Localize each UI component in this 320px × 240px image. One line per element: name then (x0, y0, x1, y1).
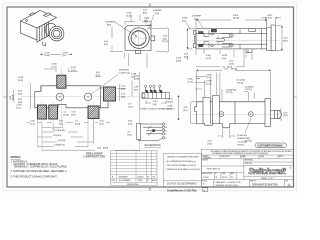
svg-text:[19.05]: [19.05] (231, 68, 237, 70)
svg-text:[2.54]: [2.54] (75, 123, 80, 125)
svg-text:10/26/07: 10/26/07 (203, 177, 209, 179)
svg-text:TB: TB (215, 177, 217, 179)
svg-text:APPD: APPD (152, 179, 157, 182)
front dims left (104, 22, 147, 69)
plug pins dark (145, 90, 148, 93)
svg-text:[3.76]: [3.76] (18, 80, 23, 82)
svg-text:0.126: 0.126 (144, 18, 150, 20)
svg-text:TYP (2): TYP (2) (226, 92, 233, 94)
svg-text:0.185: 0.185 (168, 106, 174, 108)
svg-text:• THREE PLACE DECIMALS ±0.005: • THREE PLACE DECIMALS ±0.005 [0.13] (166, 168, 201, 171)
top view small rect right (249, 29, 256, 32)
plug pin circles (145, 85, 147, 87)
svg-text:[1.25]: [1.25] (207, 83, 212, 85)
svg-text:0.105: 0.105 (207, 74, 213, 76)
svg-text:[8.1]: [8.1] (163, 38, 167, 40)
front view centerlines (128, 27, 151, 50)
svg-text:(0.1): (0.1) (96, 72, 100, 74)
iso terminal slats (37, 22, 49, 42)
svg-text:T: T (165, 124, 166, 126)
svg-text:S: S (165, 134, 166, 136)
svg-text:(2) HOLES: (2) HOLES (237, 135, 247, 137)
footprint left dims (10, 77, 30, 110)
top view nut (271, 25, 275, 51)
footprint right dims (118, 72, 140, 108)
leader line to hex (113, 21, 137, 37)
svg-text:[1.3]: [1.3] (31, 123, 35, 125)
svg-text:[2.67]: [2.67] (176, 60, 181, 62)
svg-text:APPD: APPD (279, 155, 284, 158)
top view flange (267, 27, 271, 50)
svg-text:(0.2): (0.2) (104, 41, 108, 43)
svg-text:[1.3]: [1.3] (59, 123, 63, 125)
footprint body (35, 86, 108, 108)
side view dim right 0.15 (278, 108, 288, 122)
pad right (104, 87, 116, 101)
svg-text:SolidWorks CAD File: SolidWorks CAD File (167, 189, 197, 193)
svg-text:• ALL DIMENSIONS IN INCHES [m: • ALL DIMENSIONS IN INCHES [mm] (166, 160, 197, 163)
front dims above (125, 10, 153, 30)
front view body square (125, 26, 151, 51)
iso top hole (26, 20, 28, 22)
svg-text:0.075: 0.075 (17, 105, 23, 107)
svg-text:[1.8]: [1.8] (208, 143, 212, 145)
svg-text:[12.09]: [12.09] (233, 18, 239, 20)
svg-text:CHECKED: CHECKED (221, 156, 230, 158)
svg-text:0.075: 0.075 (267, 15, 273, 17)
svg-text:[3.8]: [3.8] (284, 115, 288, 117)
top view bottom dims (196, 50, 252, 69)
front view bottom tab (135, 51, 141, 54)
top view inner lines (196, 29, 267, 49)
svg-text:TYP (2): TYP (2) (237, 82, 244, 84)
svg-text:[2.67]: [2.67] (207, 77, 212, 79)
svg-text:[1.14]: [1.14] (188, 81, 193, 83)
svg-text:[1.5]: [1.5] (155, 13, 159, 15)
svg-text:[1.3]: [1.3] (128, 123, 132, 125)
svg-text:[2.54]: [2.54] (64, 114, 69, 116)
iso barrel mid (51, 28, 61, 38)
svg-text:FIRST USED ON: FIRST USED ON (207, 169, 221, 171)
svg-text:0.137: 0.137 (45, 53, 51, 55)
svg-text:0.1R REF: 0.1R REF (192, 16, 202, 18)
side view overall dim (197, 68, 271, 101)
svg-text:0.107: 0.107 (206, 55, 212, 57)
side view centerline (192, 113, 282, 115)
svg-text:[3.5]: [3.5] (131, 76, 135, 78)
top view left height dim (184, 29, 195, 59)
svg-text:[7.6]: [7.6] (129, 106, 133, 108)
top view left terminals (194, 30, 197, 34)
svg-text:0.175: 0.175 (168, 99, 174, 101)
svg-text:NOTES:: NOTES: (11, 155, 21, 159)
svg-text:0.079: 0.079 (63, 53, 69, 55)
svg-text:0.135: 0.135 (127, 13, 133, 15)
top view inner contour (199, 30, 210, 47)
pad top (57, 75, 66, 88)
svg-text:[8.4]: [8.4] (107, 24, 111, 26)
side view left dim (168, 96, 197, 124)
svg-text:MATERIAL: MATERIAL (245, 159, 253, 162)
svg-text:[3.3]: [3.3] (100, 123, 104, 125)
svg-text:APPD: APPD (241, 155, 246, 158)
svg-text:[2.0]: [2.0] (222, 58, 226, 60)
iso barrel bore (53, 30, 60, 37)
svg-text:⌀0.088 [2.235]: ⌀0.088 [2.235] (237, 137, 250, 140)
svg-text:SCHEMATIC: SCHEMATIC (145, 143, 161, 147)
svg-text:3. THIS PRODUCT IS RoHS COMPLI: 3. THIS PRODUCT IS RoHS COMPLIANT (11, 174, 58, 178)
footprint hole 1 (56, 93, 63, 100)
leader 0.06 REF (149, 10, 162, 28)
svg-text:SPEC No.: SPEC No. (245, 163, 253, 165)
iso dimension 0.137 (41, 53, 73, 58)
side view inner lines (203, 102, 271, 124)
svg-text:TYP (2): TYP (2) (245, 141, 252, 143)
schematic wires (139, 124, 163, 141)
svg-text:ECO NUMBER: ECO NUMBER (119, 180, 131, 182)
svg-text:4:1: 4:1 (203, 184, 205, 186)
svg-text:10/26/07: 10/26/07 (137, 176, 144, 178)
svg-text:[1.9]: [1.9] (17, 107, 21, 109)
top view dim 0.476 overall (196, 15, 267, 28)
svg-text:0.049: 0.049 (52, 64, 58, 66)
front view barrel mid (131, 31, 146, 46)
svg-text:0.148: 0.148 (18, 77, 24, 79)
svg-text:RELEASED: RELEASED (119, 175, 129, 178)
top view body (196, 29, 267, 49)
svg-text:UNLESS OTHERWISE SPECIFIED:: UNLESS OTHERWISE SPECIFIED: (167, 156, 200, 158)
footprint top dims (44, 64, 130, 96)
schematic contact dot (153, 130, 155, 132)
svg-text:[9.7]: [9.7] (134, 89, 138, 91)
svg-text:0.26 [6.6]: 0.26 [6.6] (245, 86, 254, 88)
svg-text:• TWO PLACE DECIMALS ±0.01: • TWO PLACE DECIMALS ±0.01 [0.3] (166, 164, 197, 167)
svg-text:0.476: 0.476 (233, 15, 239, 17)
svg-text:[5.1]: [5.1] (104, 44, 108, 46)
svg-text:TYP (2): TYP (2) (237, 144, 244, 146)
svg-text:⌀0.087 [2.2]: ⌀0.087 [2.2] (119, 71, 130, 74)
svg-text:TERMINALS - COPPER ALLOY, GOLD: TERMINALS - COPPER ALLOY, GOLD PLATED (14, 165, 67, 169)
svg-text:DRAWN: DRAWN (202, 155, 209, 158)
svg-text:TYP (2): TYP (2) (162, 41, 169, 43)
top view leader 0.1R (192, 16, 203, 29)
svg-text:BY: BY (215, 173, 217, 175)
svg-text:0.1 [2.54]: 0.1 [2.54] (237, 80, 246, 82)
side view body (195, 96, 277, 128)
side view top dims (195, 73, 255, 102)
plug pin stems (146, 87, 160, 90)
svg-text:[10.9]: [10.9] (13, 95, 15, 100)
svg-text:[2.72]: [2.72] (206, 58, 211, 60)
iso body top face (21, 11, 57, 29)
schematic terminals (162, 123, 164, 125)
svg-text:0.262: 0.262 (134, 76, 140, 78)
svg-text:[0.8]: [0.8] (18, 102, 22, 104)
svg-text:35RASMT5CHNTRX: 35RASMT5CHNTRX (252, 183, 278, 187)
top view bottom tab (246, 49, 252, 53)
svg-text:0.026 [0.66]: 0.026 [0.66] (226, 89, 237, 91)
svg-text:[2.4]: [2.4] (182, 20, 186, 22)
top view contact finger 2 (222, 43, 231, 47)
outer faint border (3, 3, 297, 191)
schematic sleeve rect (137, 124, 141, 140)
svg-text:COMPONENT SIDE: COMPONENT SIDE (84, 156, 106, 159)
footprint bottom dim rows (17, 105, 140, 152)
border tick right middle (294, 96, 297, 98)
top view dim 0.075 flange (261, 15, 281, 27)
svg-text:3.5MM JACK, 4 CONDUCTOR,: 3.5MM JACK, 4 CONDUCTOR, (214, 181, 241, 184)
front dim right vertical 0.32 TYP (152, 27, 169, 53)
svg-text:TYP (2): TYP (2) (245, 89, 252, 91)
svg-text:[2.0]: [2.0] (63, 55, 67, 57)
footprint hole 2 (84, 93, 91, 100)
iso top tab 1 (44, 13, 52, 17)
svg-text:[8.1]: [8.1] (143, 12, 147, 14)
svg-text:[8.9]: [8.9] (284, 40, 288, 42)
border tick top center (149, 3, 152, 7)
iso body left face (21, 21, 38, 40)
svg-text:[9.0]: [9.0] (153, 104, 157, 106)
top view dark pad (211, 29, 216, 32)
svg-text:0.3 [7.6]: 0.3 [7.6] (58, 140, 65, 142)
svg-text:[3.8]: [3.8] (230, 63, 234, 65)
border tick bottom center (149, 187, 152, 191)
svg-text:0.079: 0.079 (222, 55, 228, 57)
border tick left middle (3, 96, 7, 98)
pad bottom 1 (38, 105, 47, 119)
svg-text:0.095: 0.095 (182, 18, 188, 20)
svg-text:SURFACE MOUNT, RoHS: SURFACE MOUNT, RoHS (216, 184, 239, 187)
top view right vertical dim (276, 26, 288, 51)
svg-text:[1.8]: [1.8] (72, 114, 76, 116)
iso barrel flange (45, 23, 57, 36)
svg-text:0.045: 0.045 (188, 79, 194, 81)
svg-text:DO NOT SCALE DRAWING: DO NOT SCALE DRAWING (167, 183, 197, 186)
svg-text:[4.7]: [4.7] (168, 108, 172, 110)
main drawing frame (7, 7, 294, 187)
svg-text:0.049: 0.049 (207, 81, 213, 83)
svg-text:(2) HOLES: (2) HOLES (119, 70, 129, 72)
svg-text:R2: R2 (165, 130, 167, 132)
svg-text:0.06 REF: 0.06 REF (153, 10, 162, 12)
footprint inner step (41, 86, 101, 108)
top view contact finger 1 (222, 34, 231, 38)
svg-text:0.175 [4.45]: 0.175 [4.45] (54, 130, 65, 132)
side view hole 2 (248, 112, 253, 117)
svg-text:®: ® (290, 167, 292, 170)
svg-text:FINISH: FINISH (202, 160, 208, 162)
svg-text:[14.0]: [14.0] (103, 148, 108, 150)
svg-text:2. SUPPLIED ON TAPE AND REEL,: 2. SUPPLIED ON TAPE AND REEL, SEE SHEET … (11, 169, 68, 173)
top view fork cutout (210, 34, 225, 47)
side view bottom tab dim (208, 129, 236, 145)
pad bottom 2 (49, 105, 58, 119)
side view upper-left leaders (176, 57, 200, 84)
svg-text:0.105: 0.105 (176, 58, 182, 60)
front leader 0.095 (182, 18, 190, 30)
svg-text:[6.65]: [6.65] (134, 78, 139, 80)
svg-text:R1: R1 (165, 127, 167, 129)
side view holes leader (237, 118, 251, 146)
iso barrel outer (49, 26, 64, 41)
top view terminal marks (199, 32, 203, 34)
side view hole 1 (219, 112, 224, 117)
plug dim (129, 74, 167, 109)
svg-text:SHEET 1 OF 2: SHEET 1 OF 2 (261, 178, 274, 180)
pad bottom 3 (88, 106, 99, 119)
svg-text:0.345 [8.76]: 0.345 [8.76] (54, 145, 65, 147)
svg-text:[8.1]: [8.1] (184, 110, 188, 112)
plug body bar (142, 93, 170, 99)
iso top tab 2 (30, 13, 36, 16)
svg-text:[2.5]: [2.5] (194, 18, 198, 20)
footprint centerlines (20, 68, 140, 145)
side view tip round (274, 110, 281, 118)
svg-text:[4.45]: [4.45] (168, 101, 173, 103)
svg-text:[1.9]: [1.9] (268, 18, 272, 20)
svg-text:10/27/07: 10/27/07 (222, 177, 228, 179)
svg-text:[3.48]: [3.48] (45, 55, 50, 57)
svg-text:0.138: 0.138 (131, 74, 137, 76)
svg-text:[3.8]: [3.8] (121, 96, 125, 98)
top view centerline (192, 39, 279, 41)
svg-text:CUSTOMER DRAWING: CUSTOMER DRAWING (257, 144, 283, 148)
svg-text:[0.5]: [0.5] (18, 93, 22, 95)
front view barrel outer (129, 28, 150, 49)
front view bore (133, 31, 143, 45)
svg-text:[2.5]: [2.5] (128, 134, 132, 136)
svg-text:0.25 [6.4]: 0.25 [6.4] (53, 135, 62, 137)
schematic terminal labels (165, 124, 167, 140)
front view side tab (151, 36, 155, 41)
svg-text:REVISIONS: REVISIONS (127, 184, 139, 186)
svg-text:Switchcraft: Switchcraft (248, 167, 286, 176)
svg-text:0.33 HEX: 0.33 HEX (105, 22, 114, 24)
iso bottom tab (43, 42, 46, 47)
svg-text:0.107: 0.107 (71, 67, 77, 69)
svg-text:[1.6]: [1.6] (147, 28, 151, 30)
